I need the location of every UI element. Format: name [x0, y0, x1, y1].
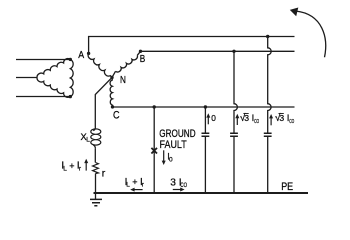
- svg-text:+: +: [69, 161, 74, 171]
- svg-text:CO: CO: [180, 182, 187, 189]
- svg-text:+: +: [132, 177, 137, 187]
- svg-text:3: 3: [170, 177, 176, 188]
- svg-text:L: L: [86, 137, 90, 144]
- svg-text:N: N: [120, 75, 126, 86]
- svg-text:L: L: [63, 165, 67, 172]
- svg-text:3: 3: [279, 113, 284, 123]
- svg-text:0: 0: [211, 113, 216, 123]
- svg-text:r: r: [102, 167, 106, 179]
- svg-text:FAULT: FAULT: [160, 139, 187, 151]
- svg-text:r: r: [79, 165, 82, 172]
- svg-text:C: C: [113, 110, 120, 122]
- svg-text:B: B: [140, 54, 146, 65]
- svg-text:r: r: [142, 182, 145, 189]
- svg-text:A: A: [78, 49, 84, 61]
- svg-text:PE: PE: [281, 181, 293, 193]
- svg-text:0: 0: [169, 156, 173, 163]
- svg-text:3: 3: [244, 113, 249, 123]
- svg-text:CO: CO: [289, 119, 294, 125]
- svg-text:L: L: [126, 182, 130, 189]
- svg-text:CO: CO: [254, 119, 259, 125]
